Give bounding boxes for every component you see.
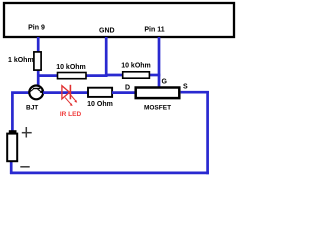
wire GND net to R3 left <box>105 74 123 77</box>
resistor R3 10 kOhm <box>123 72 150 78</box>
pin label D <box>125 85 130 92</box>
svg-text:Pin 11: Pin 11 <box>144 27 164 34</box>
label MOSFET <box>144 105 171 112</box>
battery BT1 <box>7 130 17 161</box>
wire R4 to MOSFET drain <box>112 91 135 94</box>
wire battery plus to BJT emitter <box>12 93 30 131</box>
pin label Pin 11 <box>144 27 164 34</box>
value label 1 kOhm <box>8 57 34 64</box>
value label IR LED <box>60 111 82 118</box>
value label 10 Ohm <box>87 101 113 108</box>
transistor MOSFET Q2 <box>136 88 180 99</box>
pin label Pin 9 <box>28 25 45 32</box>
svg-text:10 kOhm: 10 kOhm <box>56 64 86 71</box>
wire R2 right to GND net <box>86 74 108 77</box>
wire R3 right to gate net <box>149 74 160 77</box>
wire battery minus to bottom rail <box>10 161 13 174</box>
svg-text:Pin 9: Pin 9 <box>28 25 45 32</box>
wire Pin 9 to R1 <box>37 37 40 52</box>
resistor R1 1 kOhm <box>34 52 41 70</box>
resistor R4 10 Ohm <box>88 88 112 97</box>
pin label G <box>162 79 168 86</box>
wire bottom rail <box>10 172 209 175</box>
connector box (Arduino header) <box>4 3 234 37</box>
svg-text:MOSFET: MOSFET <box>144 105 171 112</box>
svg-text:1 kOhm: 1 kOhm <box>8 57 34 64</box>
transistor BJT Q1 <box>29 86 43 100</box>
svg-text:GND: GND <box>99 28 115 35</box>
svg-text:BJT: BJT <box>26 105 38 112</box>
wire R1 bottom to BJT base <box>37 70 40 86</box>
svg-text:G: G <box>162 79 168 86</box>
wire node base to R2 left <box>37 74 58 77</box>
svg-text:10 kOhm: 10 kOhm <box>121 63 151 70</box>
battery minus sign <box>20 166 29 168</box>
battery plus sign <box>22 127 32 138</box>
wire GND vertical <box>105 37 108 77</box>
value label 10 kOhm (left) <box>56 64 86 71</box>
svg-text:10 Ohm: 10 Ohm <box>87 101 113 108</box>
label BJT <box>26 105 38 112</box>
svg-text:D: D <box>125 85 130 92</box>
wire right rail down <box>206 91 209 174</box>
resistor R2 10 kOhm <box>58 73 87 79</box>
wire Pin 11 to MOSFET gate <box>158 37 161 87</box>
svg-text:IR LED: IR LED <box>60 111 82 118</box>
pin label S <box>183 84 188 91</box>
svg-text:S: S <box>183 84 188 91</box>
pin label GND <box>99 28 115 35</box>
wire BJT collector through LED to R4 <box>43 91 88 94</box>
value label 10 kOhm (right) <box>121 63 151 70</box>
diode IR LED D1 <box>62 85 77 106</box>
wire MOSFET source to right rail <box>181 91 209 94</box>
